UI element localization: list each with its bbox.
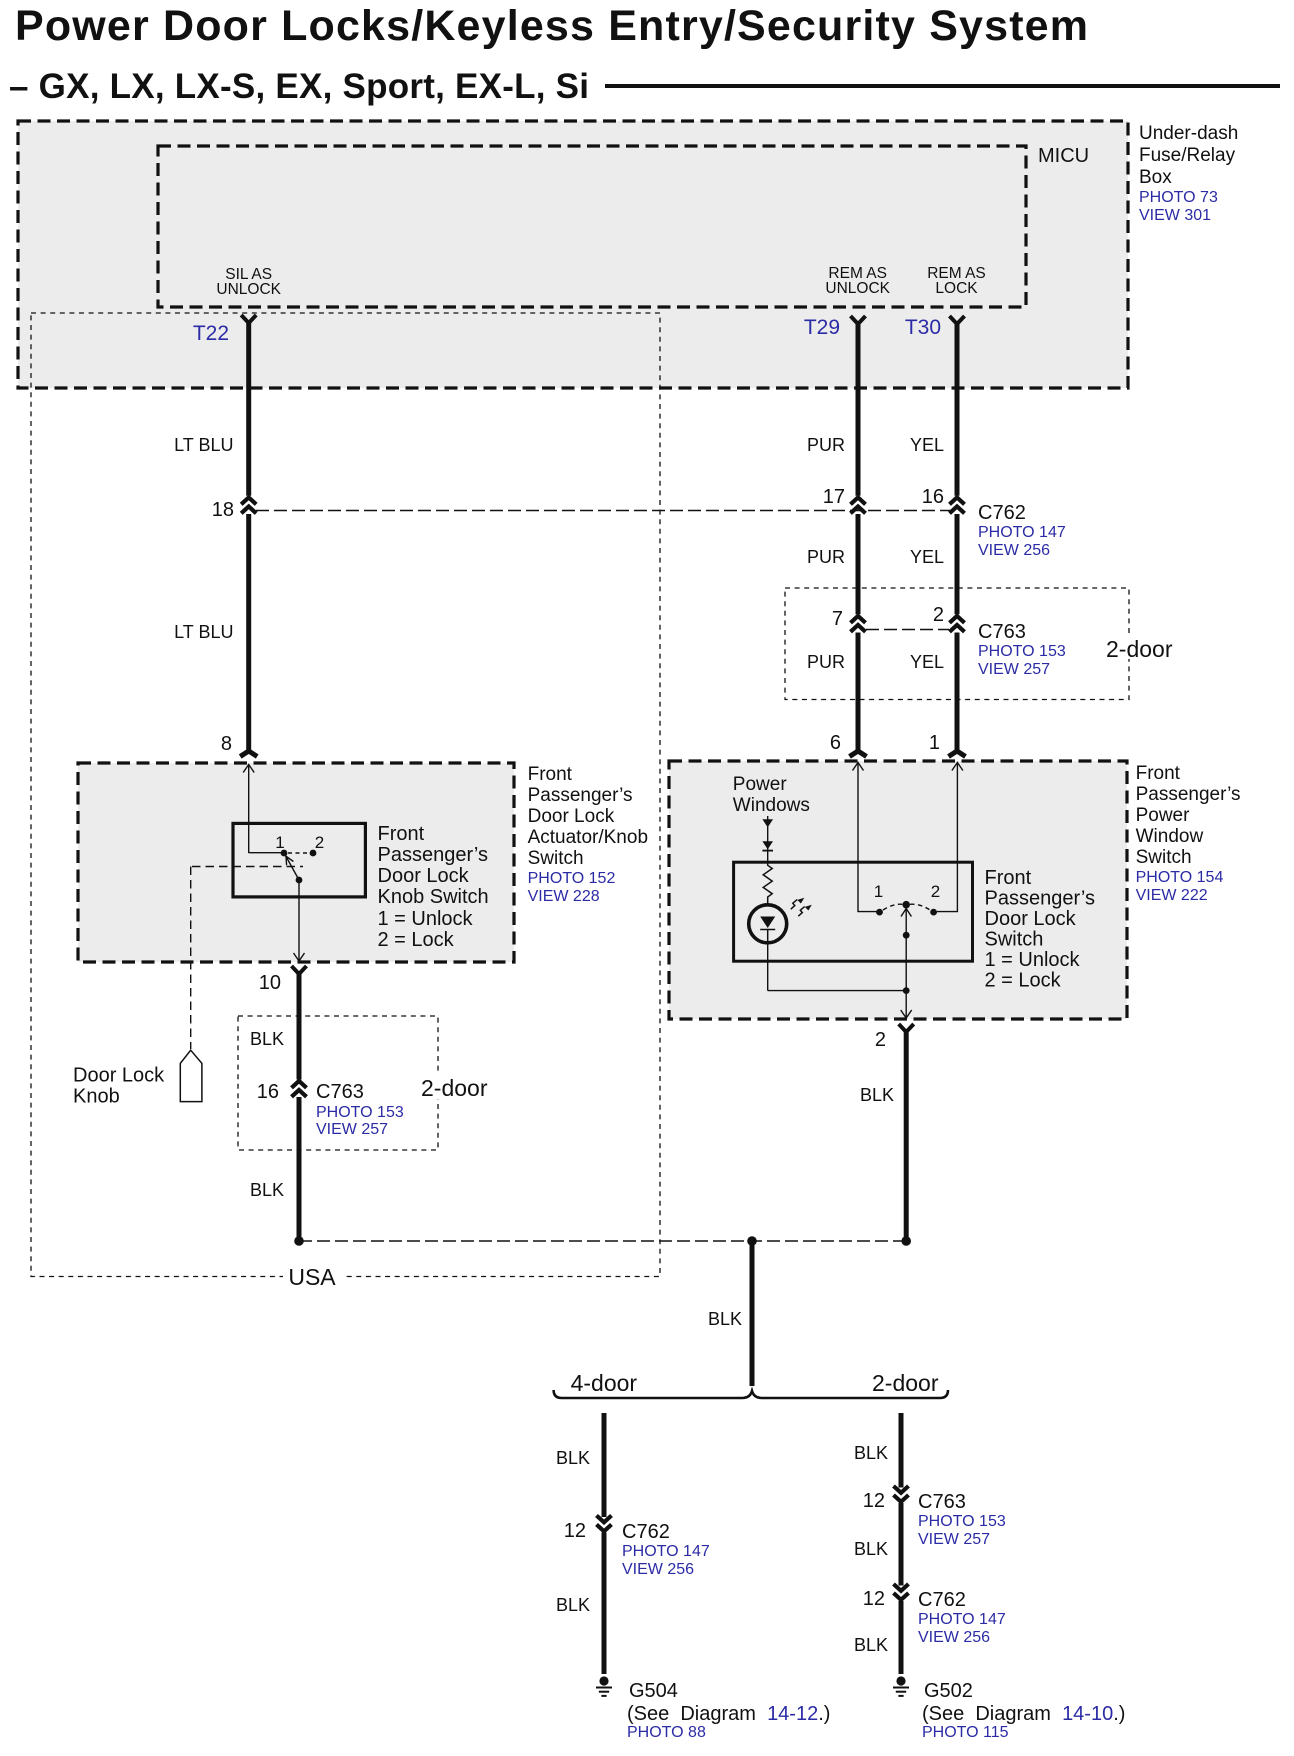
svg-text:1: 1 [929, 732, 940, 754]
svg-text:Fuse/Relay: Fuse/Relay [1139, 145, 1236, 166]
connector C762 pin 18 chevrons [241, 498, 256, 505]
svg-text:PHOTO 115: PHOTO 115 [922, 1724, 1009, 1741]
entry terminal 6 chevron [850, 751, 867, 757]
connector C762 pin 12 chevrons (2-door) [894, 1584, 909, 1591]
svg-text:16: 16 [922, 486, 944, 508]
wire LT BLU lower segment [246, 514, 251, 751]
svg-text:Passenger’s: Passenger’s [528, 785, 633, 806]
svg-text:1: 1 [275, 833, 284, 852]
terminal 2 fork [899, 1024, 914, 1032]
svg-text:C763: C763 [918, 1491, 966, 1513]
entry terminal 1 chevron [949, 751, 966, 757]
svg-text:T30: T30 [905, 316, 941, 339]
svg-text:C763: C763 [316, 1081, 364, 1103]
terminal 10 fork [292, 966, 307, 974]
terminal T30 fork [950, 316, 965, 324]
MICU inner dashed box [158, 146, 1026, 307]
power windows feed line with double arrowheads [767, 816, 769, 862]
switch arm pivot dot [296, 877, 303, 884]
knob switch inner solid box [233, 823, 365, 897]
wire BLK (switch to splice) [904, 1030, 909, 1241]
svg-text:(See Diagram 14-10.): (See Diagram 14-10.) [922, 1703, 1125, 1725]
svg-text:BLK: BLK [860, 1085, 894, 1105]
splice junction dot right [901, 1236, 911, 1246]
svg-text:BLK: BLK [854, 1539, 888, 1559]
svg-text:Front: Front [985, 867, 1032, 889]
wire PUR segment 2 [856, 514, 861, 614]
svg-text:Switch: Switch [528, 848, 584, 869]
svg-text:2: 2 [875, 1029, 886, 1051]
svg-text:PHOTO 73: PHOTO 73 [1139, 189, 1218, 206]
svg-text:BLK: BLK [854, 1635, 888, 1655]
junction dot lamp/pole common [903, 987, 910, 994]
svg-text:PUR: PUR [807, 547, 845, 567]
svg-text:1: 1 [874, 882, 883, 901]
svg-text:T22: T22 [193, 322, 229, 345]
splice junction dot center [747, 1236, 757, 1246]
wire BLK (knob switch to splice) upper [297, 972, 302, 1080]
svg-text:PHOTO 153: PHOTO 153 [918, 1513, 1006, 1530]
wire YEL segment 1 [955, 323, 960, 496]
svg-text:C763: C763 [978, 621, 1026, 643]
svg-text:VIEW 257: VIEW 257 [918, 1531, 990, 1548]
svg-text:1 = Unlock: 1 = Unlock [985, 949, 1081, 971]
svg-text:BLK: BLK [854, 1443, 888, 1463]
terminal T22 fork [241, 315, 256, 323]
svg-text:UNLOCK: UNLOCK [825, 280, 890, 297]
svg-text:VIEW 228: VIEW 228 [528, 888, 600, 905]
illumination lamp (bulb) [749, 905, 787, 943]
svg-text:USA: USA [288, 1264, 336, 1290]
svg-text:BLK: BLK [708, 1309, 742, 1329]
wire BLK (knob switch to splice) lower [297, 1097, 302, 1238]
svg-text:G504: G504 [629, 1680, 678, 1702]
connector C763 pin 7 chevrons [851, 616, 866, 623]
2-door label (right box) [1100, 635, 1170, 659]
svg-text:Under-dash: Under-dash [1139, 123, 1238, 144]
dashed splice link line [299, 1240, 906, 1242]
svg-text:YEL: YEL [910, 435, 944, 455]
svg-text:Power: Power [733, 774, 788, 795]
svg-text:Door Lock: Door Lock [985, 908, 1077, 930]
svg-text:VIEW 301: VIEW 301 [1139, 207, 1211, 224]
svg-text:VIEW 257: VIEW 257 [978, 661, 1050, 678]
connector C762 pin 17 chevrons [851, 498, 866, 505]
svg-text:Windows: Windows [733, 795, 810, 816]
contact 2 dot [310, 850, 317, 857]
USA option box (thin dashed) [31, 313, 660, 1277]
svg-text:12: 12 [564, 1520, 586, 1542]
svg-text:Front: Front [378, 823, 425, 845]
svg-text:VIEW 222: VIEW 222 [1136, 887, 1208, 904]
wire PUR segment 3 [856, 633, 861, 751]
wire BLK center down [750, 1241, 755, 1386]
front passenger power window switch box [669, 761, 1127, 1019]
svg-text:12: 12 [863, 1588, 885, 1610]
svg-text:C762: C762 [622, 1521, 670, 1543]
wire BLK 4-door lower [602, 1533, 607, 1675]
common line to pin 10 [298, 880, 300, 961]
svg-text:PUR: PUR [807, 435, 845, 455]
svg-text:Knob: Knob [73, 1086, 120, 1108]
wire BLK 2-door segment 1 [899, 1413, 904, 1488]
door lock switch contact 2 dot [930, 909, 937, 916]
svg-text:PUR: PUR [807, 652, 845, 672]
door lock knob symbol [180, 1050, 202, 1101]
switch pivot dot [902, 901, 910, 909]
ground G504 [599, 1676, 608, 1685]
svg-text:T29: T29 [804, 316, 840, 339]
dashed link contact1-contact2 [288, 852, 309, 854]
svg-text:C762: C762 [918, 1589, 966, 1611]
svg-text:PHOTO 147: PHOTO 147 [918, 1611, 1006, 1628]
2-door option box (left, thin dashed) [238, 1016, 438, 1150]
svg-text:Front: Front [1136, 763, 1181, 784]
svg-text:7: 7 [832, 608, 843, 630]
front passenger door lock actuator/knob switch box [78, 763, 514, 962]
svg-text:MICU: MICU [1038, 145, 1089, 167]
under-dash fuse/relay box (outer dashed box) [18, 121, 1128, 388]
svg-text:PHOTO 88: PHOTO 88 [627, 1724, 706, 1741]
connector C763 pin 2 chevrons [950, 616, 965, 623]
svg-text:C762: C762 [978, 502, 1026, 524]
svg-text:(See Diagram 14-12.): (See Diagram 14-12.) [627, 1703, 830, 1725]
illumination resistor [763, 862, 772, 905]
svg-text:PHOTO 152: PHOTO 152 [528, 870, 616, 887]
wire YEL segment 3 [955, 633, 960, 751]
2-door option box (right, thin dashed) [785, 588, 1129, 700]
svg-text:Passenger’s: Passenger’s [378, 844, 488, 866]
feed line pin 6 to contact 1 [857, 763, 859, 913]
pole mid dot [903, 932, 910, 939]
svg-text:2-door: 2-door [872, 1370, 939, 1396]
svg-text:LT BLU: LT BLU [174, 435, 233, 455]
ground G502 [896, 1676, 905, 1685]
svg-text:PHOTO 147: PHOTO 147 [978, 524, 1066, 541]
svg-text:2-door: 2-door [421, 1075, 488, 1101]
internal feed line from pin 8 to contact 1 [248, 765, 250, 854]
svg-text:2: 2 [933, 604, 944, 626]
svg-text:Front: Front [528, 764, 573, 785]
svg-text:LOCK: LOCK [935, 280, 978, 297]
svg-text:YEL: YEL [910, 547, 944, 567]
svg-text:12: 12 [863, 1490, 885, 1512]
svg-text:YEL: YEL [910, 652, 944, 672]
svg-text:16: 16 [257, 1081, 279, 1103]
svg-text:Knob Switch: Knob Switch [378, 886, 489, 908]
svg-text:Power Door Locks/Keyless Entry: Power Door Locks/Keyless Entry/Security … [15, 2, 1088, 50]
svg-text:VIEW 256: VIEW 256 [622, 1561, 694, 1578]
svg-text:LT BLU: LT BLU [174, 622, 233, 642]
wire YEL segment 2 [955, 514, 960, 614]
entry terminal 8 chevron [240, 751, 257, 757]
connector C763 pin 16 chevrons [292, 1081, 307, 1088]
svg-text:Door Lock: Door Lock [528, 806, 615, 827]
connector C762 pin 12 chevrons (4-door) [597, 1516, 612, 1523]
wire LT BLU upper segment [246, 322, 251, 496]
svg-text:2: 2 [315, 833, 324, 852]
svg-text:G502: G502 [924, 1680, 973, 1702]
svg-text:Door Lock: Door Lock [378, 865, 470, 887]
svg-text:BLK: BLK [556, 1448, 590, 1468]
pole arrow to pivot [905, 909, 907, 991]
dashed link line C763 row [866, 629, 949, 631]
svg-text:Door Lock: Door Lock [73, 1065, 165, 1087]
svg-text:Window: Window [1136, 826, 1204, 847]
wire BLK 4-door upper [602, 1413, 607, 1517]
2-door label (left box) [419, 1075, 483, 1099]
svg-text:Passenger’s: Passenger’s [985, 888, 1095, 910]
svg-text:Box: Box [1139, 167, 1172, 188]
connector C763 pin 12 chevrons (2-door) [894, 1486, 909, 1493]
svg-text:8: 8 [221, 733, 232, 755]
lamp to common line [767, 942, 769, 991]
svg-text:– GX, LX, LX-S, EX, Sport, EX-: – GX, LX, LX-S, EX, Sport, EX-L, Si [9, 67, 589, 106]
switch arm [286, 856, 300, 881]
svg-text:4-door: 4-door [571, 1370, 638, 1396]
svg-text:Actuator/Knob: Actuator/Knob [528, 827, 648, 848]
terminal T29 fork [851, 316, 866, 324]
illumination rays [791, 900, 797, 910]
moving contact dashed arc [883, 904, 903, 910]
svg-text:Passenger’s: Passenger’s [1136, 784, 1241, 805]
svg-text:2-door: 2-door [1106, 636, 1173, 662]
svg-text:PHOTO 154: PHOTO 154 [1136, 869, 1224, 886]
svg-text:VIEW 256: VIEW 256 [918, 1629, 990, 1646]
connector C762 pin 16 chevrons [950, 498, 965, 505]
wire PUR segment 1 [856, 323, 861, 496]
svg-text:1 = Unlock: 1 = Unlock [378, 908, 474, 930]
svg-text:VIEW 257: VIEW 257 [316, 1121, 388, 1138]
USA label [283, 1263, 343, 1288]
svg-text:Power: Power [1136, 805, 1191, 826]
door lock switch contact 1 dot [876, 909, 883, 916]
mechanical dashed link to door lock knob [192, 866, 303, 868]
dashed link line C762 row [256, 510, 951, 512]
header rule [605, 84, 1280, 88]
svg-text:Switch: Switch [1136, 847, 1192, 868]
svg-text:17: 17 [823, 486, 845, 508]
power window switch inner solid box [734, 862, 973, 961]
svg-text:6: 6 [830, 732, 841, 754]
svg-text:VIEW 256: VIEW 256 [978, 542, 1050, 559]
svg-text:PHOTO 147: PHOTO 147 [622, 1543, 710, 1560]
svg-text:BLK: BLK [556, 1595, 590, 1615]
svg-text:Switch: Switch [985, 929, 1044, 951]
svg-text:BLK: BLK [250, 1180, 284, 1200]
svg-text:PHOTO 153: PHOTO 153 [316, 1104, 404, 1121]
svg-text:2 = Lock: 2 = Lock [378, 929, 455, 951]
contact 1 dot [281, 850, 288, 857]
svg-text:2: 2 [931, 882, 940, 901]
common line to pin 2 [905, 991, 907, 1018]
svg-text:PHOTO 153: PHOTO 153 [978, 643, 1066, 660]
4-door / 2-door brace [554, 1390, 948, 1398]
feed line pin 1 to contact 2 [956, 763, 958, 913]
svg-text:BLK: BLK [250, 1029, 284, 1049]
wire BLK 2-door segment 3 [899, 1601, 904, 1674]
svg-text:UNLOCK: UNLOCK [216, 281, 281, 298]
svg-text:2 = Lock: 2 = Lock [985, 970, 1062, 992]
svg-text:18: 18 [212, 499, 234, 521]
splice junction dot left [294, 1236, 304, 1246]
svg-text:10: 10 [259, 972, 281, 994]
wire BLK 2-door segment 2 [899, 1503, 904, 1586]
